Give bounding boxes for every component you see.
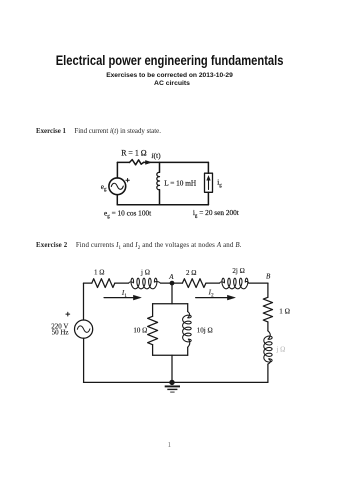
svg-text:B: B — [266, 272, 271, 280]
subtitle line 1 — [0, 72, 339, 79]
wire: node A stem — [171, 283, 173, 304]
inductor L (L = 10 mH) — [157, 172, 160, 190]
source e_g (AC voltage source circle) — [109, 178, 126, 195]
inductor j ohm (top left, loop style) — [128, 278, 160, 289]
wire: bottom — [117, 204, 208, 206]
svg-text:10 Ω: 10 Ω — [133, 326, 147, 334]
resistor 1 ohm (right branch, vertical) — [263, 297, 272, 322]
plus polarity mark — [126, 179, 129, 182]
source 220 V 50 Hz (AC circle) — [75, 320, 93, 338]
wire: between resistor and inductor — [115, 282, 129, 284]
wire: left branch upper — [116, 162, 118, 178]
sine symbol inside source — [111, 183, 123, 189]
wire: right branch bottom — [267, 364, 269, 382]
svg-text:1 Ω: 1 Ω — [279, 308, 290, 316]
wire: top left corner to resistor — [84, 282, 92, 284]
wire: box bottom edge — [153, 354, 188, 356]
resistor 2 ohm (top right of A) — [182, 279, 205, 288]
svg-text:A: A — [168, 273, 174, 281]
wire: right branch lower — [207, 192, 209, 204]
wire: bottom — [84, 381, 268, 383]
current arrow i(t) on top wire — [146, 161, 152, 165]
current arrow I1 — [104, 297, 133, 299]
exercise 2 heading — [36, 242, 242, 249]
wire: middle branch lower — [159, 190, 161, 205]
wire: box right upper stub — [187, 304, 189, 312]
current source i_g (box) — [205, 173, 213, 192]
wire: right branch between R and L — [267, 322, 269, 331]
inductor 2j ohm (top right, loop style) — [219, 278, 249, 289]
wire: inductor to node A to resistor 2 — [161, 282, 183, 284]
svg-text:2 Ω: 2 Ω — [186, 269, 196, 277]
document title — [36, 53, 303, 69]
wire: parallel box top edge — [153, 303, 188, 305]
arrow inside current source — [208, 179, 210, 189]
plus polarity mark — [66, 312, 70, 316]
sine symbol inside source — [77, 326, 90, 333]
wire: box to ground stem — [171, 355, 173, 382]
wire: top left segment — [117, 161, 129, 163]
wire: box left upper stub — [152, 304, 154, 317]
svg-text:2j Ω: 2j Ω — [232, 267, 244, 275]
subtitle line 2 — [3, 80, 339, 87]
wire: box right lower stub — [187, 347, 189, 355]
svg-text:j Ω: j Ω — [275, 346, 285, 354]
wire: left branch top — [83, 283, 85, 320]
wire: right branch upper — [207, 162, 209, 173]
ground symbol — [165, 385, 180, 387]
svg-text:50 Hz: 50 Hz — [52, 329, 69, 337]
wire: left branch lower — [116, 195, 118, 205]
resistor 1 ohm (top left) — [92, 279, 115, 288]
ground junction dot — [169, 380, 174, 385]
wire: box left lower stub — [152, 345, 154, 356]
inductor j ohm (right branch, vertical loop style) — [264, 331, 272, 364]
wire: top middle segment — [144, 161, 209, 163]
wire: left branch bottom — [83, 338, 85, 382]
svg-text:j Ω: j Ω — [140, 269, 150, 277]
wire: right branch top — [267, 283, 269, 297]
wire: inductor 2j to corner B — [249, 282, 268, 284]
exercise 1 heading — [36, 128, 161, 135]
page number — [168, 440, 172, 449]
svg-text:1 Ω: 1 Ω — [94, 269, 104, 277]
resistor R (R = 1 ohm, hand-drawn kink) — [130, 160, 144, 165]
wire: between resistor 2 and inductor 2j — [206, 282, 219, 284]
wire: middle branch upper — [159, 162, 161, 172]
current arrow I2 — [196, 297, 228, 299]
resistor 10 ohm (box left, vertical) — [148, 316, 158, 344]
inductor 10j ohm (box right, vertical loop style) — [183, 312, 192, 348]
node A junction dot — [170, 281, 175, 286]
svg-text:10j Ω: 10j Ω — [197, 327, 213, 335]
